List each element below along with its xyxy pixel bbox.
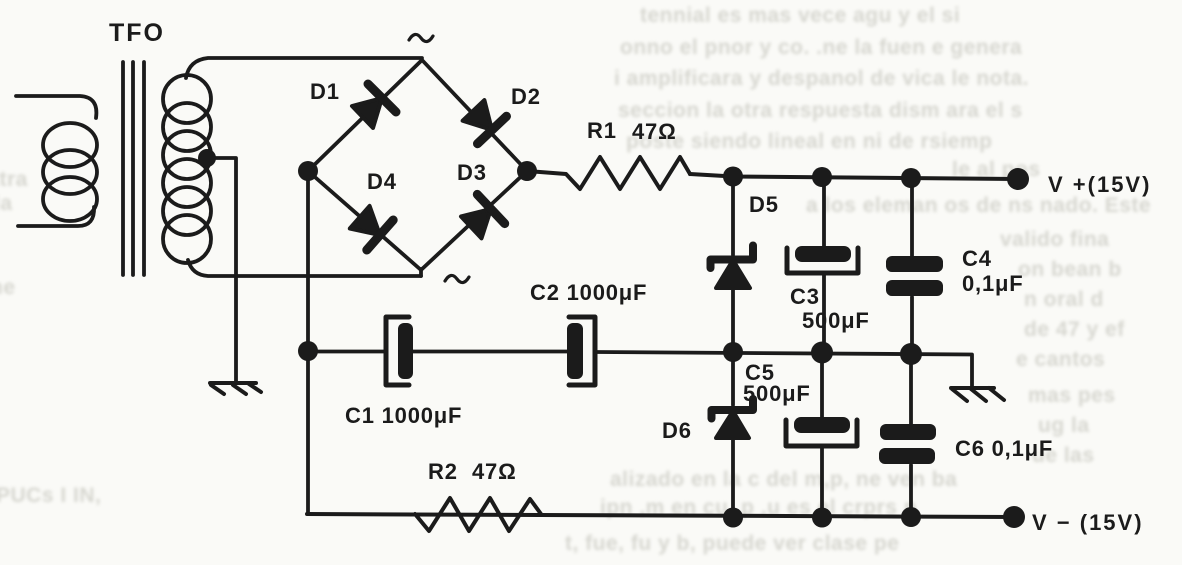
svg-text:R1: R1 (587, 118, 617, 143)
svg-text:V − (15V): V − (15V) (1032, 510, 1144, 535)
svg-text:0,1μF: 0,1μF (962, 271, 1023, 296)
svg-text:D5: D5 (749, 192, 779, 217)
svg-text:47Ω: 47Ω (632, 119, 677, 144)
svg-text:D3: D3 (457, 160, 487, 185)
svg-text:C2 1000μF: C2 1000μF (530, 280, 647, 305)
svg-text:TFO: TFO (109, 19, 165, 47)
svg-text:C6 0,1μF: C6 0,1μF (955, 436, 1053, 461)
svg-text:D6: D6 (662, 418, 692, 443)
svg-text:C1 1000μF: C1 1000μF (345, 403, 462, 428)
svg-text:D1: D1 (310, 79, 340, 104)
svg-text:C3: C3 (790, 284, 820, 309)
svg-text:V +(15V): V +(15V) (1048, 172, 1151, 197)
svg-text:C4: C4 (962, 246, 992, 271)
svg-text:500μF: 500μF (743, 381, 811, 406)
svg-text:500μF: 500μF (802, 308, 870, 333)
svg-text:D4: D4 (367, 169, 397, 194)
svg-text:R2: R2 (428, 459, 458, 484)
svg-text:47Ω: 47Ω (472, 459, 517, 484)
svg-text:D2: D2 (511, 84, 541, 109)
